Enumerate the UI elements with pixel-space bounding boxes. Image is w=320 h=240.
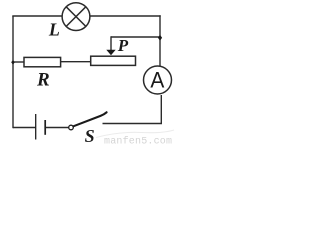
svg-text:L: L — [48, 19, 60, 39]
switch S pivot — [69, 125, 74, 130]
junction J1: dot on left wire — [11, 60, 15, 65]
switch S lever — [73, 112, 106, 126]
wire: bottom right horizontal — [103, 123, 163, 125]
battery long plate (+) — [35, 114, 37, 140]
wire: right vertical top — [159, 15, 161, 66]
svg-text:manfen5.com: manfen5.com — [104, 136, 172, 145]
junction J2: dot on right wire — [158, 35, 162, 41]
svg-text:R: R — [36, 70, 50, 91]
wire: wiper vertical — [110, 36, 112, 50]
rheostat P wiper arrow — [106, 50, 115, 55]
wire: battery to switch pivot — [45, 127, 68, 129]
svg-text:P: P — [117, 36, 129, 55]
rheostat P body — [91, 56, 136, 65]
wire: resistor R to rheostat — [61, 61, 90, 63]
wire: top left to lamp — [12, 15, 62, 17]
watermark arc — [96, 130, 174, 138]
svg-text:A: A — [150, 67, 164, 93]
battery short plate (-) — [44, 120, 46, 135]
resistor R — [24, 57, 61, 66]
wire: left wire to resistor R — [13, 61, 24, 63]
wire: bottom left horizontal — [13, 127, 36, 129]
wire: wiper horizontal — [111, 36, 160, 38]
ammeter A — [144, 66, 172, 94]
svg-text:S: S — [85, 126, 95, 145]
wire: ammeter bottom vertical — [160, 95, 162, 124]
lamp L — [62, 3, 90, 31]
wire: left vertical — [12, 16, 14, 128]
wire: lamp to top right — [91, 15, 161, 17]
